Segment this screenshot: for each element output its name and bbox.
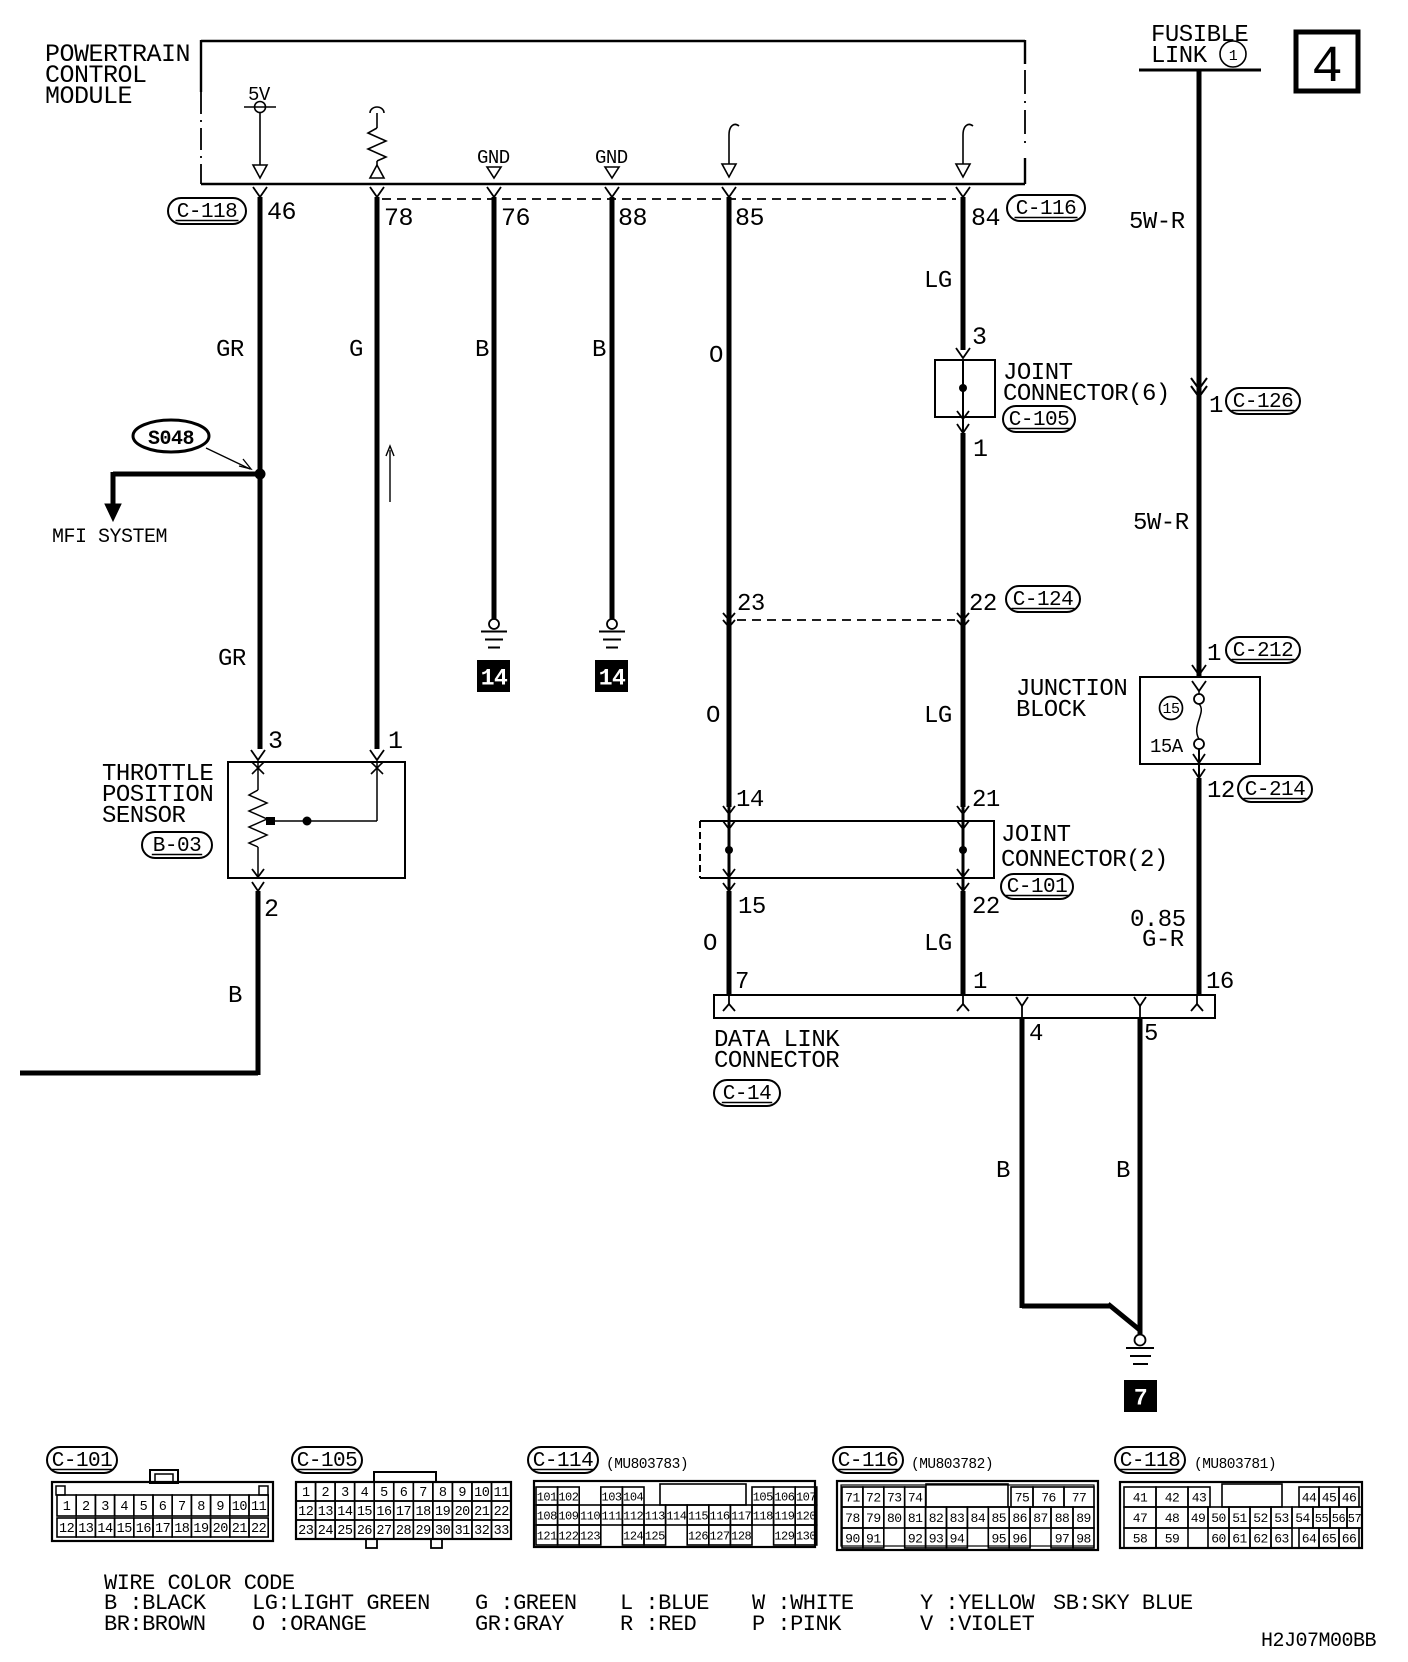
svg-text:71: 71 bbox=[845, 1491, 860, 1506]
svg-text:43: 43 bbox=[1192, 1491, 1207, 1506]
svg-text:52: 52 bbox=[1253, 1511, 1268, 1526]
svg-text:5: 5 bbox=[380, 1486, 388, 1501]
junction node S048 bbox=[255, 469, 266, 480]
svg-text:LINK: LINK bbox=[1151, 43, 1208, 70]
svg-text:24: 24 bbox=[318, 1524, 334, 1539]
svg-text:12: 12 bbox=[1207, 778, 1235, 805]
svg-text:117: 117 bbox=[731, 1510, 751, 1524]
wire LG between JC6 and C-124 bbox=[961, 433, 966, 807]
svg-text:3: 3 bbox=[341, 1486, 349, 1501]
svg-text:1: 1 bbox=[973, 435, 988, 464]
svg-text:66: 66 bbox=[1342, 1532, 1357, 1547]
svg-text:1: 1 bbox=[63, 1500, 71, 1515]
wire pin2 B to left edge bbox=[256, 891, 261, 1075]
ground ref 7 black box bbox=[1124, 1380, 1157, 1412]
svg-text:V :VIOLET: V :VIOLET bbox=[920, 1612, 1035, 1637]
svg-text:88: 88 bbox=[1055, 1511, 1070, 1526]
svg-text:129: 129 bbox=[774, 1530, 794, 1544]
svg-text:B: B bbox=[1116, 1158, 1130, 1185]
junction block exit chevrons bbox=[1193, 754, 1205, 763]
svg-text:115: 115 bbox=[688, 1510, 708, 1524]
wire DLC pin5 B bbox=[1138, 1018, 1143, 1334]
svg-text:CONNECTOR(2): CONNECTOR(2) bbox=[1001, 847, 1168, 874]
svg-text:13: 13 bbox=[78, 1522, 94, 1537]
wire branch to MFI system bbox=[113, 472, 260, 477]
svg-text:63: 63 bbox=[1274, 1532, 1289, 1547]
wire pin88 B bbox=[610, 197, 615, 619]
svg-text:91: 91 bbox=[866, 1532, 881, 1547]
wire 0.85 G-R to DLC bbox=[1197, 778, 1202, 995]
svg-text:1: 1 bbox=[302, 1486, 310, 1501]
svg-text:5V: 5V bbox=[248, 84, 271, 106]
input arrow inside PCM pin 85 bbox=[729, 124, 739, 135]
svg-text:GND: GND bbox=[595, 147, 628, 169]
svg-text:95: 95 bbox=[991, 1532, 1006, 1547]
svg-text:56: 56 bbox=[1332, 1512, 1346, 1526]
svg-text:44: 44 bbox=[1302, 1491, 1317, 1506]
TPS pin 3 chevron bbox=[251, 750, 265, 760]
svg-text:18: 18 bbox=[174, 1522, 190, 1537]
svg-text:109: 109 bbox=[558, 1510, 578, 1524]
svg-text:89: 89 bbox=[1076, 1511, 1091, 1526]
svg-text:45: 45 bbox=[1322, 1491, 1337, 1506]
svg-text:3: 3 bbox=[972, 323, 987, 352]
svg-text:14: 14 bbox=[97, 1522, 113, 1537]
TPS wiper bbox=[266, 817, 275, 825]
TPS pin 1 chevron bbox=[370, 750, 384, 760]
svg-text:30: 30 bbox=[435, 1524, 451, 1539]
dashed line C-124 bbox=[737, 619, 955, 621]
svg-text:41: 41 bbox=[1133, 1491, 1148, 1506]
arrow beside wire 78 bbox=[389, 450, 391, 502]
svg-text:47: 47 bbox=[1133, 1511, 1148, 1526]
svg-text:10: 10 bbox=[232, 1500, 248, 1515]
connector table C-105 bbox=[292, 1447, 362, 1473]
svg-text:15: 15 bbox=[1162, 701, 1180, 718]
svg-text:3: 3 bbox=[101, 1500, 109, 1515]
svg-text:60: 60 bbox=[1211, 1532, 1226, 1547]
svg-text:15A: 15A bbox=[1150, 736, 1184, 758]
svg-text:G-R: G-R bbox=[1142, 927, 1184, 954]
svg-text:7: 7 bbox=[1134, 1386, 1147, 1412]
splice S048 label bbox=[133, 420, 209, 452]
svg-text:57: 57 bbox=[1348, 1512, 1362, 1526]
svg-text:12: 12 bbox=[59, 1522, 75, 1537]
svg-text:3: 3 bbox=[268, 727, 283, 756]
svg-text:(MU803783): (MU803783) bbox=[606, 1457, 688, 1473]
svg-text:127: 127 bbox=[710, 1530, 730, 1544]
svg-text:46: 46 bbox=[267, 198, 296, 227]
data link connector box C-14 bbox=[714, 995, 1215, 1018]
svg-text:59: 59 bbox=[1165, 1532, 1180, 1547]
svg-text:49: 49 bbox=[1191, 1511, 1206, 1526]
svg-text:23: 23 bbox=[737, 591, 765, 618]
svg-text:G: G bbox=[349, 337, 363, 364]
svg-text:B: B bbox=[475, 337, 489, 364]
svg-text:7: 7 bbox=[419, 1486, 427, 1501]
svg-text:118: 118 bbox=[753, 1510, 773, 1524]
svg-text:4: 4 bbox=[361, 1486, 369, 1501]
svg-text:128: 128 bbox=[731, 1530, 751, 1544]
svg-text:R :RED: R :RED bbox=[620, 1612, 697, 1637]
svg-text:12: 12 bbox=[298, 1505, 314, 1520]
svg-text:76: 76 bbox=[1041, 1491, 1056, 1506]
svg-text:16: 16 bbox=[136, 1522, 152, 1537]
fuse number circle 15 bbox=[1160, 697, 1183, 720]
svg-text:90: 90 bbox=[845, 1532, 860, 1547]
svg-text:10: 10 bbox=[474, 1486, 490, 1501]
svg-text:17: 17 bbox=[155, 1522, 171, 1537]
svg-text:SB:SKY BLUE: SB:SKY BLUE bbox=[1053, 1591, 1193, 1616]
svg-text:5: 5 bbox=[140, 1500, 148, 1515]
svg-text:BLOCK: BLOCK bbox=[1016, 697, 1087, 724]
connector label C-116 bbox=[1007, 195, 1085, 221]
svg-text:103: 103 bbox=[602, 1491, 622, 1505]
svg-text:130: 130 bbox=[796, 1530, 816, 1544]
svg-text:5W-R: 5W-R bbox=[1133, 510, 1189, 537]
svg-text:5W-R: 5W-R bbox=[1129, 209, 1185, 236]
svg-text:15: 15 bbox=[357, 1505, 373, 1520]
svg-text:23: 23 bbox=[298, 1524, 314, 1539]
svg-text:4: 4 bbox=[1312, 38, 1343, 97]
svg-text:8: 8 bbox=[197, 1500, 205, 1515]
svg-text:84: 84 bbox=[971, 1511, 986, 1526]
svg-text:104: 104 bbox=[623, 1491, 643, 1505]
svg-text:BR:BROWN: BR:BROWN bbox=[104, 1612, 206, 1637]
svg-text:15: 15 bbox=[117, 1522, 133, 1537]
svg-text:LG: LG bbox=[924, 703, 952, 730]
svg-text:46: 46 bbox=[1342, 1491, 1357, 1506]
svg-text:9: 9 bbox=[458, 1486, 466, 1501]
svg-text:85: 85 bbox=[991, 1511, 1006, 1526]
svg-text:121: 121 bbox=[537, 1530, 557, 1544]
svg-text:5: 5 bbox=[1144, 1021, 1158, 1048]
svg-text:93: 93 bbox=[929, 1532, 944, 1547]
svg-text:O: O bbox=[706, 703, 720, 730]
svg-text:28: 28 bbox=[396, 1524, 412, 1539]
svg-text:116: 116 bbox=[710, 1510, 730, 1524]
connector C-124 marks on wires bbox=[723, 613, 735, 620]
connector table C-114 bbox=[528, 1447, 598, 1473]
svg-text:19: 19 bbox=[193, 1522, 209, 1537]
svg-text:6: 6 bbox=[400, 1486, 408, 1501]
throttle position sensor box B-03 bbox=[228, 762, 405, 878]
svg-text:20: 20 bbox=[455, 1505, 471, 1520]
svg-text:22: 22 bbox=[969, 591, 997, 618]
svg-text:H2J07M00BB: H2J07M00BB bbox=[1261, 1630, 1377, 1653]
svg-text:14: 14 bbox=[337, 1505, 353, 1520]
PCM: Powertrain Control Module box bbox=[201, 40, 1025, 42]
svg-text:1: 1 bbox=[1207, 641, 1221, 668]
svg-text:94: 94 bbox=[950, 1532, 965, 1547]
svg-text:92: 92 bbox=[908, 1532, 923, 1547]
svg-text:(MU803781): (MU803781) bbox=[1194, 1457, 1276, 1473]
TPS pin 2 chevron bbox=[252, 882, 264, 891]
svg-text:72: 72 bbox=[866, 1491, 881, 1506]
ground symbol at x=612 bbox=[607, 619, 617, 629]
svg-text:75: 75 bbox=[1015, 1491, 1030, 1506]
svg-text:25: 25 bbox=[337, 1524, 353, 1539]
svg-text:2: 2 bbox=[264, 895, 279, 924]
svg-text:111: 111 bbox=[602, 1510, 622, 1524]
svg-text:81: 81 bbox=[908, 1511, 923, 1526]
svg-text:122: 122 bbox=[558, 1530, 578, 1544]
svg-text:6: 6 bbox=[159, 1500, 167, 1515]
svg-text:GR:GRAY: GR:GRAY bbox=[475, 1612, 564, 1637]
input arrow inside PCM pin 84 bbox=[963, 124, 973, 135]
svg-text:98: 98 bbox=[1076, 1532, 1091, 1547]
svg-text:16: 16 bbox=[376, 1505, 392, 1520]
svg-text:78: 78 bbox=[384, 204, 413, 233]
svg-text:11: 11 bbox=[494, 1486, 510, 1501]
svg-text:42: 42 bbox=[1165, 1491, 1180, 1506]
svg-text:61: 61 bbox=[1232, 1532, 1247, 1547]
dashed connector line C-116 bbox=[382, 198, 956, 200]
connector table C-116 bbox=[833, 1447, 903, 1473]
svg-text:21: 21 bbox=[474, 1505, 490, 1520]
svg-text:120: 120 bbox=[796, 1510, 816, 1524]
svg-text:21: 21 bbox=[232, 1522, 248, 1537]
ground ref 14 black box bbox=[595, 660, 628, 692]
svg-text:14: 14 bbox=[599, 666, 626, 692]
svg-text:124: 124 bbox=[623, 1530, 643, 1544]
svg-text:MODULE: MODULE bbox=[45, 82, 132, 111]
svg-text:GND: GND bbox=[477, 147, 510, 169]
svg-text:74: 74 bbox=[908, 1491, 923, 1506]
svg-text:GR: GR bbox=[218, 646, 246, 673]
svg-text:107: 107 bbox=[796, 1491, 816, 1505]
svg-text:54: 54 bbox=[1295, 1511, 1310, 1526]
svg-text:4: 4 bbox=[120, 1500, 128, 1515]
svg-text:64: 64 bbox=[1302, 1532, 1317, 1547]
svg-text:8: 8 bbox=[439, 1486, 447, 1501]
wire 5W-R from fusible link bbox=[1197, 71, 1202, 676]
svg-text:84: 84 bbox=[971, 204, 1000, 233]
svg-text:76: 76 bbox=[501, 204, 530, 233]
svg-text:7: 7 bbox=[735, 969, 749, 996]
ground ref 14 black box bbox=[477, 660, 510, 692]
svg-text:65: 65 bbox=[1322, 1532, 1337, 1547]
svg-text:83: 83 bbox=[950, 1511, 965, 1526]
ground symbol bottom bbox=[1135, 1335, 1146, 1346]
svg-text:96: 96 bbox=[1012, 1532, 1027, 1547]
svg-text:CONNECTOR(6): CONNECTOR(6) bbox=[1003, 381, 1170, 408]
joint connector (2) C-101 box bbox=[700, 821, 994, 878]
svg-text:JOINT: JOINT bbox=[1001, 822, 1071, 849]
svg-text:11: 11 bbox=[251, 1500, 267, 1515]
svg-text:S048: S048 bbox=[148, 428, 194, 451]
wire pin46 GR bbox=[258, 197, 263, 749]
svg-text:19: 19 bbox=[435, 1505, 451, 1520]
svg-text:CONNECTOR: CONNECTOR bbox=[714, 1048, 839, 1075]
svg-text:78: 78 bbox=[845, 1511, 860, 1526]
svg-text:105: 105 bbox=[753, 1491, 773, 1505]
svg-text:110: 110 bbox=[580, 1510, 600, 1524]
svg-text:22: 22 bbox=[494, 1505, 510, 1520]
wire pin85 O bbox=[727, 197, 732, 807]
wire DLC pin4 B bbox=[1020, 1018, 1025, 1308]
S048 pointer arrow bbox=[206, 448, 250, 469]
PCM connector pin chevrons bbox=[253, 187, 267, 197]
svg-text:1: 1 bbox=[1209, 393, 1223, 420]
svg-text:125: 125 bbox=[645, 1530, 665, 1544]
svg-text:2: 2 bbox=[322, 1486, 330, 1501]
svg-text:86: 86 bbox=[1012, 1511, 1027, 1526]
svg-text:55: 55 bbox=[1315, 1512, 1329, 1526]
joint connector (6) C-105 box bbox=[935, 360, 995, 417]
wire pin76 B bbox=[492, 197, 497, 619]
svg-text:(MU803782): (MU803782) bbox=[911, 1457, 993, 1473]
svg-text:85: 85 bbox=[735, 204, 764, 233]
svg-text:77: 77 bbox=[1072, 1491, 1087, 1506]
svg-text:9: 9 bbox=[216, 1500, 224, 1515]
svg-text:18: 18 bbox=[415, 1505, 431, 1520]
svg-text:73: 73 bbox=[887, 1491, 902, 1506]
svg-text:50: 50 bbox=[1211, 1511, 1226, 1526]
svg-text:MFI SYSTEM: MFI SYSTEM bbox=[52, 526, 167, 549]
svg-text:97: 97 bbox=[1055, 1532, 1070, 1547]
svg-text:SENSOR: SENSOR bbox=[102, 803, 186, 830]
svg-text:LG: LG bbox=[924, 268, 952, 295]
connector table C-101 bbox=[47, 1447, 117, 1473]
svg-text:53: 53 bbox=[1274, 1511, 1289, 1526]
page number 4 box bbox=[1296, 32, 1358, 91]
svg-text:O: O bbox=[709, 343, 723, 370]
TPS internal entry marks bbox=[252, 762, 264, 774]
svg-text:B: B bbox=[996, 1158, 1010, 1185]
svg-text:88: 88 bbox=[618, 204, 647, 233]
wire pin84 LG bbox=[961, 197, 966, 350]
fuse 15 inside junction block bbox=[1198, 691, 1200, 694]
svg-text:22: 22 bbox=[251, 1522, 267, 1537]
svg-text:119: 119 bbox=[774, 1510, 794, 1524]
svg-text:27: 27 bbox=[376, 1524, 392, 1539]
JC2 wires below bbox=[727, 891, 732, 995]
svg-text:LG: LG bbox=[924, 931, 952, 958]
svg-text:48: 48 bbox=[1165, 1511, 1180, 1526]
svg-text:13: 13 bbox=[318, 1505, 334, 1520]
svg-text:123: 123 bbox=[580, 1530, 600, 1544]
svg-text:17: 17 bbox=[396, 1505, 412, 1520]
svg-text:58: 58 bbox=[1133, 1532, 1148, 1547]
svg-text:31: 31 bbox=[455, 1524, 471, 1539]
svg-text:20: 20 bbox=[213, 1522, 229, 1537]
svg-text:B: B bbox=[592, 337, 606, 364]
svg-text:14: 14 bbox=[736, 787, 764, 814]
svg-text:O :ORANGE: O :ORANGE bbox=[252, 1612, 367, 1637]
svg-text:7: 7 bbox=[178, 1500, 186, 1515]
resistor inside PCM (pin 78 pull-up) bbox=[370, 107, 384, 113]
svg-text:108: 108 bbox=[537, 1510, 557, 1524]
svg-text:B: B bbox=[228, 983, 242, 1010]
connector label C-118 bbox=[168, 198, 246, 224]
svg-text:79: 79 bbox=[866, 1511, 881, 1526]
TPS potentiometer resistor bbox=[257, 762, 259, 790]
svg-text:106: 106 bbox=[774, 1491, 794, 1505]
svg-text:112: 112 bbox=[623, 1510, 643, 1524]
svg-text:101: 101 bbox=[537, 1491, 557, 1505]
svg-text:113: 113 bbox=[645, 1510, 665, 1524]
svg-text:GR: GR bbox=[216, 337, 244, 364]
svg-text:22: 22 bbox=[972, 894, 1000, 921]
svg-text:87: 87 bbox=[1033, 1511, 1048, 1526]
svg-text:1: 1 bbox=[388, 727, 403, 756]
svg-text:26: 26 bbox=[357, 1524, 373, 1539]
svg-text:16: 16 bbox=[1206, 969, 1234, 996]
connector table C-118 bbox=[1115, 1447, 1185, 1473]
svg-text:80: 80 bbox=[887, 1511, 902, 1526]
svg-text:126: 126 bbox=[688, 1530, 708, 1544]
svg-text:21: 21 bbox=[972, 787, 1000, 814]
svg-text:15: 15 bbox=[738, 894, 766, 921]
svg-text:4: 4 bbox=[1029, 1021, 1043, 1048]
svg-text:32: 32 bbox=[474, 1524, 490, 1539]
svg-text:51: 51 bbox=[1232, 1511, 1247, 1526]
svg-text:82: 82 bbox=[929, 1511, 944, 1526]
svg-text:29: 29 bbox=[415, 1524, 431, 1539]
svg-text:33: 33 bbox=[494, 1524, 510, 1539]
svg-text:102: 102 bbox=[558, 1491, 578, 1505]
svg-text:P :PINK: P :PINK bbox=[752, 1612, 842, 1637]
connector C-126 pass-through bbox=[1191, 378, 1207, 389]
svg-text:62: 62 bbox=[1253, 1532, 1268, 1547]
svg-text:14: 14 bbox=[481, 666, 508, 692]
svg-text:1: 1 bbox=[1229, 48, 1238, 65]
svg-text:114: 114 bbox=[666, 1510, 686, 1524]
wire pin78 G bbox=[375, 197, 380, 749]
svg-text:2: 2 bbox=[82, 1500, 90, 1515]
ground symbol at x=494 bbox=[489, 619, 499, 629]
svg-text:1: 1 bbox=[973, 969, 987, 996]
svg-text:O: O bbox=[703, 931, 717, 958]
